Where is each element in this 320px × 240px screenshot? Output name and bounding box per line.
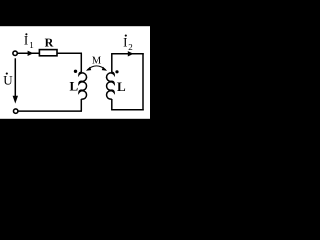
white canvas between letterbox bars (0, 26, 150, 119)
svg-text:L: L (117, 79, 126, 94)
svg-text:L: L (70, 78, 79, 93)
voltage arrow U (14, 58, 16, 97)
terminal bottom-left (14, 109, 18, 113)
svg-text:R: R (45, 36, 54, 50)
right loop right side (142, 53, 144, 110)
right loop bottom wire (111, 109, 144, 111)
svg-text:2: 2 (128, 42, 133, 52)
wire top-left to resistor (18, 52, 39, 54)
current arrow I1 (28, 51, 34, 56)
right loop: top stub above coil (111, 54, 113, 73)
wire resistor to corner (57, 52, 82, 54)
wire: left loop right side down to coil (80, 53, 82, 72)
right loop top wire (111, 53, 144, 55)
mutual coupling double arrow (87, 66, 106, 70)
current arrow I2 (128, 51, 134, 56)
right loop: bottom stub below coil (111, 99, 113, 110)
svg-text:M: M (92, 56, 102, 67)
terminal top-left (13, 51, 17, 55)
svg-text:I: I (123, 35, 127, 50)
polarity dot right (115, 70, 118, 73)
bottom wire of left loop (18, 110, 82, 112)
inductor L2 (right coil, loops bulge left) (107, 72, 115, 99)
inductor L1 (left coil, loops bulge right) (79, 72, 87, 99)
svg-text:U: U (3, 72, 13, 87)
svg-text:1: 1 (29, 40, 34, 50)
polarity dot left (74, 70, 77, 73)
wire: left coil down to bottom wire (80, 99, 82, 111)
resistor R (39, 50, 57, 56)
